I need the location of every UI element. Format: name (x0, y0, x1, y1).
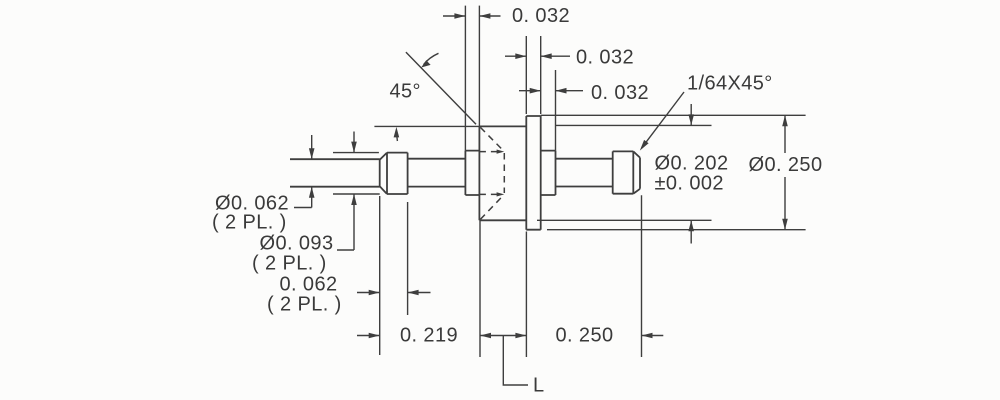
dim 0.032 third (right block) (519, 90, 583, 92)
hidden bore arrowheads (497, 150, 505, 197)
svg-text:0. 250: 0. 250 (556, 325, 614, 347)
svg-text:±0. 002: ±0. 002 (655, 173, 724, 195)
L leader (503, 336, 528, 386)
extension line h7 (flange bottom right) (547, 229, 806, 231)
45 deg curved arrow (424, 53, 439, 64)
svg-text:( 2 PL. ): ( 2 PL. ) (267, 294, 342, 316)
extension line v10 (head right down) (641, 195, 643, 357)
svg-text:0. 032: 0. 032 (591, 82, 649, 104)
svg-text:45°: 45° (390, 81, 421, 103)
extension line v5 (right block right edge) (555, 70, 557, 151)
extension line v6 (collar left down) (379, 196, 381, 355)
svg-text:0. 219: 0. 219 (400, 325, 458, 347)
head (pin end, chamfered 1/64X45°) (613, 151, 640, 193)
dim 0.250 right arrow (642, 335, 664, 337)
extension line h5 (body top right) (556, 124, 712, 126)
svg-text:1/64X45°: 1/64X45° (687, 73, 773, 95)
extension line v4 (flange right up) (540, 36, 542, 114)
svg-text:0. 032: 0. 032 (512, 5, 570, 27)
45 deg chamfer line (406, 52, 476, 124)
dia 0.250 arrows (784, 115, 786, 229)
extension line h2 (collar top left) (333, 152, 379, 154)
left block (0.032 shoulder) (465, 151, 479, 195)
left shaft between collar and body (408, 159, 466, 187)
dia 0.062 leader arrows (294, 135, 312, 208)
45 deg bottom arrow (396, 134, 399, 141)
svg-text:L: L (533, 375, 545, 397)
svg-text:Ø0. 202: Ø0. 202 (655, 153, 729, 175)
right shaft (556, 159, 613, 187)
extension line h3 (collar bottom left) (333, 193, 380, 195)
hidden internal bore (dashed) (479, 127, 504, 219)
right block (0.032 shoulder) (541, 151, 556, 195)
dia 0.202 arrows (690, 104, 692, 244)
extension line v8 (body left down) (479, 220, 481, 357)
extension line v7 (collar right down) (407, 202, 409, 315)
dim 0.062 collar width (357, 292, 431, 294)
dimension arrows & leaders (294, 13, 788, 385)
svg-text:Ø0. 250: Ø0. 250 (749, 154, 823, 176)
extension line v1 (left block left edge) (464, 6, 466, 151)
body (Ø0.202 insulator) (479, 126, 526, 220)
extension line v3 (flange left up) (525, 36, 527, 114)
extension line h4 (flange top right) (541, 114, 806, 116)
flange Ø0.250 (526, 116, 540, 230)
svg-text:Ø0. 093: Ø0. 093 (260, 233, 334, 255)
dim 0.219 (357, 335, 526, 337)
dim 0.032 second (flange) (505, 55, 570, 57)
extension line v2 (body left edge up) (478, 6, 480, 127)
svg-text:0. 032: 0. 032 (576, 46, 634, 68)
wire (lead) left, Ø0.062 (290, 159, 380, 187)
extension line v9 (flange left down) (525, 232, 527, 358)
dia 0.093 leader arrows (337, 132, 354, 251)
svg-text:( 2 PL. ): ( 2 PL. ) (252, 253, 327, 275)
svg-text:( 2 PL. ): ( 2 PL. ) (212, 212, 287, 234)
dim 0.032 first (443, 15, 501, 17)
extension line h1 (45 deg reference) (374, 125, 479, 127)
extension line h6 (body bottom right) (537, 219, 712, 221)
collar (ferrule) Ø0.093 with chamfered left face (380, 153, 408, 194)
svg-text:0. 062: 0. 062 (280, 274, 338, 296)
1/64X45 leader (642, 92, 685, 148)
